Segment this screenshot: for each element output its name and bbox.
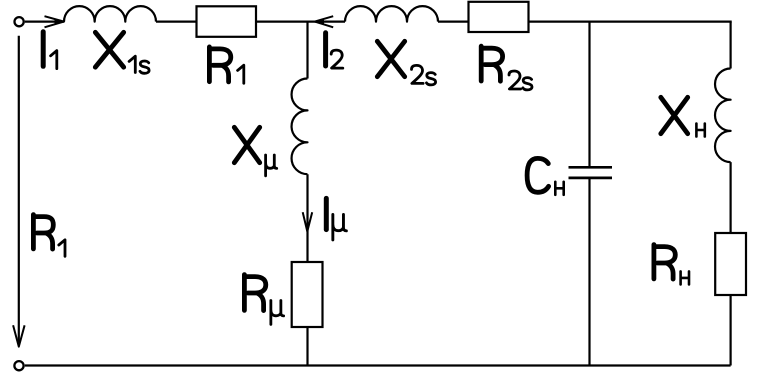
label X1s bbox=[95, 32, 123, 67]
wire X1s to R1 bbox=[156, 21, 197, 23]
resistor R2s bbox=[469, 2, 529, 32]
wire R2s to top-right corner bbox=[529, 21, 732, 23]
resistor R1 bbox=[197, 6, 257, 37]
wire left vertical bbox=[18, 36, 20, 346]
inductor X2s bbox=[345, 6, 438, 22]
label I2 bbox=[323, 33, 328, 66]
node branch Xmu: wire top stub bbox=[306, 22, 308, 79]
wire CH branch bottom bbox=[588, 178, 590, 366]
label RH bbox=[654, 245, 675, 280]
wire RH to bottom bbox=[729, 295, 731, 366]
wire right vertical top bbox=[729, 22, 731, 69]
wire Xmu to Rmu bbox=[306, 174, 308, 262]
label Imu bbox=[324, 198, 329, 229]
inductor Xmu bbox=[292, 79, 308, 175]
voltage arrow down (left) bbox=[13, 325, 25, 346]
wire CH branch top bbox=[588, 22, 590, 168]
terminal bottom-left bbox=[14, 361, 23, 370]
wire Rmu to bottom bbox=[306, 327, 308, 366]
resistor RH bbox=[715, 233, 746, 295]
wire bottom bbox=[25, 364, 731, 366]
wire XH to RH bbox=[729, 162, 731, 233]
current arrow I1 bbox=[45, 16, 65, 27]
wire top input segment bbox=[25, 21, 64, 23]
label R2s bbox=[481, 46, 502, 81]
capacitor CH bbox=[569, 166, 613, 169]
label Xmu bbox=[234, 127, 259, 162]
current arrow Imu bbox=[303, 212, 313, 231]
terminal top-left bbox=[15, 17, 24, 26]
wire X2s to R2s bbox=[438, 21, 469, 23]
inductor X1s bbox=[64, 6, 156, 22]
wire R1 to node 2 bbox=[256, 21, 345, 23]
label Rmu bbox=[244, 275, 265, 311]
label XH bbox=[661, 97, 688, 133]
label CH bbox=[527, 158, 549, 192]
label I1 bbox=[41, 32, 46, 67]
resistor Rmu bbox=[292, 262, 323, 327]
label R1 left bbox=[33, 215, 53, 250]
inductor XH bbox=[715, 69, 731, 163]
current arrow I2 bbox=[315, 16, 334, 27]
label R1 top bbox=[209, 47, 230, 82]
label X2s bbox=[377, 41, 404, 76]
